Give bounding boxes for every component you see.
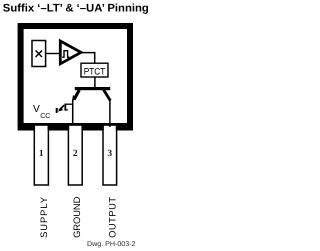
- svg-text:PTCT: PTCT: [84, 65, 106, 76]
- svg-text:CC: CC: [40, 113, 50, 120]
- svg-text:V: V: [33, 104, 40, 115]
- svg-text:1: 1: [39, 149, 44, 159]
- svg-text:Dwg. PH-003-2: Dwg. PH-003-2: [87, 241, 136, 248]
- svg-text:GROUND: GROUND: [71, 196, 82, 238]
- svg-text:SUPPLY: SUPPLY: [38, 196, 49, 238]
- svg-text:3: 3: [107, 149, 112, 159]
- svg-text:OUTPUT: OUTPUT: [107, 197, 118, 238]
- svg-text:Suffix ‘–LT’ & ‘–UA’ Pinning: Suffix ‘–LT’ & ‘–UA’ Pinning: [3, 3, 149, 15]
- svg-text:2: 2: [73, 149, 78, 159]
